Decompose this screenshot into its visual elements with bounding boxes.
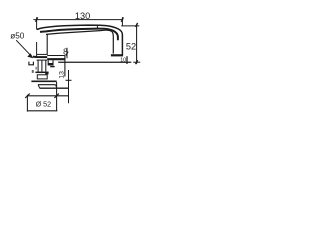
extension line bottom of 52 dim [133, 61, 140, 63]
door surface line [58, 61, 131, 63]
foot U bracket far left [29, 62, 34, 65]
handle lever top edge [37, 25, 123, 54]
spindle block [37, 75, 47, 79]
svg-text:13: 13 [58, 71, 65, 79]
tick of 10 dim [126, 56, 128, 64]
leader line for ø50 [16, 40, 32, 57]
vertical line of 8 dim [66, 48, 68, 59]
vertical line of 13 dim [68, 70, 70, 103]
spindle bar [35, 71, 48, 73]
handle seam tick [96, 25, 98, 29]
svg-text:8: 8 [63, 48, 68, 57]
plate right edge vertical [64, 56, 66, 77]
extension line right of 130 dim [121, 17, 123, 26]
foot prong 2 [41, 60, 43, 71]
front view neck left line [46, 34, 48, 55]
svg-text:10: 10 [120, 57, 126, 63]
tiny dark mark B [32, 70, 34, 73]
background [0, 0, 150, 127]
dimension line 52 [136, 23, 138, 64]
dimension line 130 [33, 17, 123, 22]
plate lower line left [37, 59, 48, 61]
foot U block middle [48, 60, 53, 65]
tick right of diameter 52 dim [54, 94, 59, 98]
step top line left [37, 53, 48, 55]
svg-text:130: 130 [75, 11, 90, 21]
step top line right [47, 55, 65, 57]
extension line left of 130 dim [36, 17, 38, 29]
tick left of diameter 52 dim [25, 94, 30, 98]
tick of 13 dim top [66, 79, 72, 81]
plate top bar left part [33, 56, 47, 59]
extension line top of 52 dim [121, 25, 139, 27]
extension line left of diameter 52 dim [26, 95, 28, 112]
handle lever middle contour line [40, 29, 118, 41]
rose second line [38, 84, 56, 86]
tick of 8 dim [66, 52, 68, 56]
extension line right of diameter 52 dim [56, 82, 58, 111]
tiny colored mark A [35, 67, 37, 70]
rose top bar [31, 80, 56, 82]
neck bottom cap [111, 54, 123, 56]
foot prong 1 [37, 60, 39, 71]
rose view left edge line [36, 42, 38, 57]
svg-text:Ø 52: Ø 52 [36, 100, 52, 109]
rose bottom line [40, 87, 69, 89]
foot U block middle fill [48, 63, 52, 65]
rose dome right slant [56, 85, 57, 88]
small dark rect on spindle bar [45, 72, 48, 74]
svg-text:52: 52 [126, 42, 136, 52]
leader arrowhead [27, 53, 33, 58]
handle lever bottom edge [46, 30, 113, 53]
plate top bar right part [47, 58, 65, 60]
foot bottom bar middle [50, 66, 55, 68]
foot prong 3 [45, 60, 47, 71]
bottom line of label area [27, 110, 58, 112]
svg-text:ø50: ø50 [10, 32, 25, 41]
rose dome left slant [38, 85, 40, 88]
dimension line diameter 52 [27, 95, 69, 97]
